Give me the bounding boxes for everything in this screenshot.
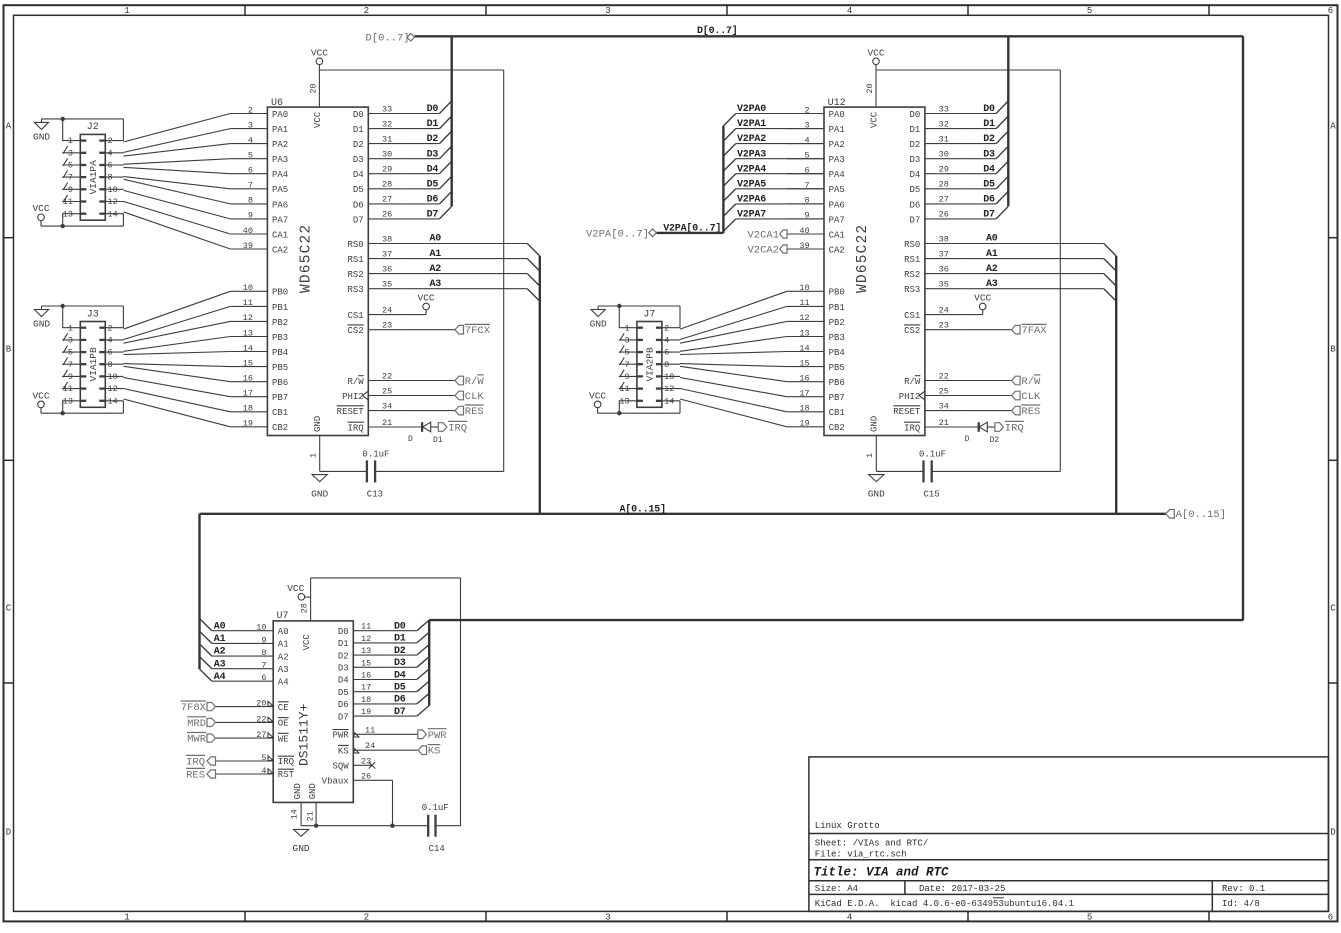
svg-text:17: 17 (799, 389, 809, 399)
svg-text:GND: GND (33, 132, 50, 143)
svg-text:CS2: CS2 (904, 326, 920, 336)
svg-text:22: 22 (256, 714, 266, 724)
svg-text:5: 5 (624, 348, 629, 358)
global label 7FAX at U12 CS2 (962, 324, 1047, 337)
svg-text:RS3: RS3 (904, 285, 920, 295)
svg-text:A0: A0 (986, 234, 998, 245)
svg-text:A1: A1 (430, 249, 442, 260)
svg-text:0.1uF: 0.1uF (362, 450, 389, 460)
svg-text:33: 33 (939, 104, 949, 114)
svg-text:14: 14 (799, 343, 809, 353)
svg-text:7F8X: 7F8X (181, 702, 207, 714)
svg-text:6: 6 (1328, 6, 1333, 16)
svg-text:RS1: RS1 (347, 255, 363, 265)
global label MWR at U7 WE (187, 733, 215, 746)
svg-text:CA1: CA1 (272, 230, 288, 240)
svg-text:6: 6 (261, 673, 266, 683)
svg-text:9: 9 (68, 185, 73, 195)
svg-text:D2: D2 (427, 134, 439, 145)
wire fan J7 to U12 port B (680, 291, 787, 427)
svg-text:31: 31 (382, 134, 392, 144)
svg-text:IRQ: IRQ (904, 423, 920, 433)
svg-text:16: 16 (799, 374, 809, 384)
svg-text:26: 26 (382, 210, 392, 220)
svg-text:9: 9 (248, 211, 253, 221)
svg-text:D1: D1 (427, 119, 439, 130)
svg-text:File: via_rtc.sch: File: via_rtc.sch (815, 850, 907, 860)
svg-text:2: 2 (108, 323, 113, 333)
wire VCC U6 to decoupling cap (319, 70, 503, 471)
global label IRQ at diode D2 (995, 421, 1024, 434)
svg-text:14: 14 (664, 396, 674, 406)
svg-text:7: 7 (261, 661, 266, 671)
svg-text:3: 3 (68, 148, 73, 158)
net labels V2PA0-V2PA7 (737, 104, 766, 220)
svg-text:D2: D2 (990, 436, 1000, 445)
svg-text:19: 19 (243, 419, 253, 429)
svg-text:8: 8 (108, 360, 113, 370)
bus A[0..15] (200, 513, 1166, 515)
svg-text:35: 35 (382, 280, 392, 290)
global label RES at U7 RST (186, 768, 215, 781)
svg-text:1: 1 (309, 453, 319, 458)
svg-text:3: 3 (605, 6, 610, 16)
svg-text:V2PA1: V2PA1 (737, 119, 766, 130)
ground GND at J7 pins 1-2 (590, 304, 680, 330)
svg-text:D0: D0 (394, 622, 406, 633)
svg-text:4: 4 (248, 135, 253, 145)
svg-text:4: 4 (108, 148, 113, 158)
svg-text:A3: A3 (986, 279, 998, 290)
svg-text:6: 6 (664, 348, 669, 358)
U6 right pin names (337, 110, 406, 434)
U12 RS0-RS3 address wires with net labels and bus entries (962, 234, 1116, 514)
svg-text:RES: RES (1021, 406, 1040, 418)
svg-text:Title: VIA and RTC: Title: VIA and RTC (814, 866, 950, 880)
svg-text:GND: GND (308, 783, 318, 799)
svg-text:D7: D7 (394, 707, 406, 718)
svg-text:PHI2: PHI2 (342, 392, 364, 402)
connector J3 VIA1PB (62, 309, 123, 407)
svg-text:23: 23 (382, 321, 392, 331)
svg-text:VCC: VCC (870, 111, 880, 128)
power VCC at U7 pin 28 (287, 578, 310, 621)
global label V2PA[0..7] (586, 229, 656, 241)
svg-text:3: 3 (605, 913, 610, 923)
svg-text:16: 16 (361, 671, 371, 681)
svg-text:28: 28 (382, 180, 392, 190)
power VCC at U6 pin 20 (311, 47, 328, 107)
svg-text:7: 7 (68, 360, 73, 370)
svg-text:RS0: RS0 (904, 240, 920, 250)
svg-text:D0: D0 (909, 110, 920, 120)
global label IRQ at diode D1 (438, 421, 467, 434)
svg-text:PA7: PA7 (272, 215, 288, 225)
svg-text:20: 20 (309, 83, 319, 93)
svg-text:39: 39 (243, 241, 253, 251)
svg-text:18: 18 (799, 404, 809, 414)
global label MRD at U7 OE (187, 717, 215, 730)
svg-text:VCC: VCC (287, 583, 304, 594)
svg-text:2: 2 (108, 136, 113, 146)
title block (809, 757, 1329, 912)
svg-text:A3: A3 (214, 659, 226, 670)
U6 left pin names and numbers (230, 105, 288, 433)
svg-text:V2PA[0..7]: V2PA[0..7] (586, 229, 649, 241)
svg-text:9: 9 (68, 372, 73, 382)
svg-text:D6: D6 (427, 195, 439, 206)
svg-text:PB2: PB2 (829, 318, 845, 328)
svg-text:12: 12 (108, 384, 118, 394)
svg-text:32: 32 (939, 119, 949, 129)
svg-text:27: 27 (939, 195, 949, 205)
svg-text:CA2: CA2 (829, 245, 845, 255)
svg-text:36: 36 (382, 264, 392, 274)
svg-text:9: 9 (261, 635, 266, 645)
svg-text:11: 11 (619, 384, 629, 394)
svg-text:VCC: VCC (418, 292, 435, 303)
svg-text:PA7: PA7 (829, 215, 845, 225)
svg-text:D4: D4 (427, 164, 439, 175)
svg-text:D4: D4 (394, 670, 406, 681)
svg-text:10: 10 (243, 283, 253, 293)
svg-text:PA4: PA4 (829, 170, 845, 180)
svg-text:29: 29 (382, 165, 392, 175)
svg-text:WE: WE (278, 734, 289, 744)
svg-text:36: 36 (939, 264, 949, 274)
ground GND at J2 pins 1-2 (33, 117, 123, 143)
svg-text:GND: GND (311, 488, 328, 499)
svg-text:0.1uF: 0.1uF (422, 803, 449, 813)
ground GND at U7 pins 14 21 (290, 802, 429, 854)
svg-text:8: 8 (261, 648, 266, 658)
svg-text:J2: J2 (87, 122, 99, 133)
svg-text:3: 3 (248, 120, 253, 130)
svg-text:D2: D2 (394, 646, 406, 657)
svg-text:0.1uF: 0.1uF (919, 450, 946, 460)
svg-text:A4: A4 (278, 677, 289, 687)
svg-text:D7: D7 (338, 712, 349, 722)
svg-text:5: 5 (261, 753, 266, 763)
svg-text:18: 18 (361, 695, 371, 705)
U12 left pin names and numbers (787, 105, 845, 433)
svg-text:27: 27 (256, 730, 266, 740)
svg-text:14: 14 (108, 209, 118, 219)
svg-text:8: 8 (108, 173, 113, 183)
svg-text:D5: D5 (338, 688, 349, 698)
svg-text:D1: D1 (394, 634, 406, 645)
svg-text:VCC: VCC (32, 203, 49, 214)
bus A entries to U7 address pins (200, 514, 237, 683)
svg-text:PA2: PA2 (829, 140, 845, 150)
svg-text:VCC: VCC (302, 634, 312, 651)
svg-text:A2: A2 (986, 264, 998, 275)
U12 right pin numbers (865, 83, 949, 458)
svg-text:GND: GND (868, 488, 885, 499)
svg-text:PB3: PB3 (829, 333, 845, 343)
svg-text:3: 3 (68, 336, 73, 346)
svg-text:R/W: R/W (904, 377, 921, 387)
svg-text:7FCX: 7FCX (465, 325, 491, 337)
svg-text:IRQ: IRQ (186, 757, 205, 769)
global label V2CA2 (747, 244, 824, 256)
svg-text:1: 1 (68, 323, 73, 333)
connector J2 VIA1PA (62, 122, 123, 220)
svg-text:VCC: VCC (867, 47, 884, 58)
svg-text:4: 4 (847, 6, 852, 16)
svg-text:PA0: PA0 (829, 110, 845, 120)
svg-text:11: 11 (63, 197, 73, 207)
global label V2CA1 (747, 229, 824, 241)
svg-text:VCC: VCC (589, 390, 606, 401)
svg-text:PA3: PA3 (272, 155, 288, 165)
svg-text:34: 34 (382, 401, 392, 411)
svg-text:27: 27 (382, 195, 392, 205)
svg-text:WD65C22: WD65C22 (299, 224, 315, 293)
svg-text:21: 21 (939, 418, 949, 428)
svg-text:PB7: PB7 (272, 393, 288, 403)
global label IRQ at U7 IRQ (186, 755, 215, 768)
svg-text:VCC: VCC (974, 292, 991, 303)
svg-text:D5: D5 (427, 179, 439, 190)
svg-text:A1: A1 (214, 634, 226, 645)
svg-text:Sheet: /VIAs and RTC/: Sheet: /VIAs and RTC/ (815, 838, 928, 848)
svg-text:A0: A0 (214, 621, 226, 632)
svg-text:1: 1 (68, 136, 73, 146)
svg-text:25: 25 (382, 386, 392, 396)
svg-text:31: 31 (939, 134, 949, 144)
svg-text:D3: D3 (394, 658, 406, 669)
wire fan J3 to U6 port B (124, 291, 231, 427)
svg-text:10: 10 (108, 372, 118, 382)
svg-text:14: 14 (243, 343, 253, 353)
svg-text:D1: D1 (983, 119, 995, 130)
svg-text:11: 11 (365, 725, 375, 735)
svg-text:17: 17 (361, 683, 371, 693)
svg-text:PB0: PB0 (272, 288, 288, 298)
svg-text:D0: D0 (353, 110, 364, 120)
svg-text:7: 7 (68, 173, 73, 183)
svg-text:16: 16 (243, 374, 253, 384)
svg-text:D1: D1 (353, 125, 364, 135)
svg-text:GND: GND (33, 319, 50, 330)
svg-text:28: 28 (299, 603, 309, 613)
svg-text:6: 6 (1328, 913, 1333, 923)
svg-text:D5: D5 (983, 179, 995, 190)
ground GND at J3 pins 1-2 (33, 304, 123, 330)
power VCC at U12 CS1 (962, 292, 992, 314)
svg-text:D2: D2 (353, 140, 364, 150)
svg-text:22: 22 (382, 371, 392, 381)
global label D[0..7] (366, 33, 415, 45)
svg-text:A3: A3 (430, 279, 442, 290)
svg-text:1: 1 (624, 323, 629, 333)
svg-text:13: 13 (619, 396, 629, 406)
svg-text:D: D (408, 435, 413, 444)
svg-text:13: 13 (361, 646, 371, 656)
svg-text:IRQ: IRQ (278, 757, 294, 767)
svg-text:VCC: VCC (311, 47, 328, 58)
svg-text:V2PA7: V2PA7 (737, 210, 766, 221)
svg-text:A3: A3 (278, 665, 289, 675)
svg-text:VIA1PA: VIA1PA (88, 160, 99, 195)
svg-text:V2PA[0..7]: V2PA[0..7] (663, 222, 721, 234)
svg-text:D1: D1 (433, 436, 443, 445)
svg-text:D7: D7 (983, 210, 995, 221)
svg-text:KiCad E.D.A. kicad 4.0.6-e0-6: KiCad E.D.A. kicad 4.0.6-e0-634953ubuntu… (815, 899, 1074, 909)
svg-text:38: 38 (939, 234, 949, 244)
svg-text:25: 25 (939, 386, 949, 396)
capacitor C15 0.1uF (919, 450, 1060, 500)
power VCC at U6 CS1 (405, 292, 435, 314)
svg-text:D3: D3 (353, 155, 364, 165)
svg-text:CA1: CA1 (829, 230, 845, 240)
svg-text:V2PA0: V2PA0 (737, 104, 766, 115)
svg-text:A2: A2 (430, 264, 442, 275)
svg-text:13: 13 (799, 328, 809, 338)
svg-text:Id: 4/8: Id: 4/8 (1222, 899, 1260, 909)
svg-text:11: 11 (63, 384, 73, 394)
svg-text:12: 12 (361, 634, 371, 644)
svg-text:OE: OE (278, 719, 289, 729)
svg-text:CB1: CB1 (272, 408, 288, 418)
svg-text:35: 35 (939, 280, 949, 290)
svg-text:22: 22 (939, 371, 949, 381)
svg-text:8: 8 (248, 196, 253, 206)
svg-text:PA0: PA0 (272, 110, 288, 120)
svg-text:D6: D6 (394, 695, 406, 706)
svg-text:15: 15 (361, 658, 371, 668)
svg-text:A0: A0 (278, 627, 289, 637)
svg-text:PA3: PA3 (829, 155, 845, 165)
ground GND at U6 pin 1 with capacitor wire (311, 436, 367, 500)
svg-text:5: 5 (1087, 6, 1092, 16)
svg-text:CS2: CS2 (347, 326, 363, 336)
svg-text:IRQ: IRQ (1005, 423, 1024, 435)
svg-text:21: 21 (382, 418, 392, 428)
svg-text:C13: C13 (367, 490, 383, 500)
svg-text:34: 34 (939, 401, 949, 411)
power VCC at U12 pin 20 (867, 47, 884, 107)
svg-text:17: 17 (243, 389, 253, 399)
U7 left pin names and numbers (216, 623, 295, 781)
svg-text:14: 14 (108, 396, 118, 406)
svg-text:D5: D5 (909, 185, 920, 195)
svg-text:PB6: PB6 (829, 378, 845, 388)
svg-text:D7: D7 (909, 215, 920, 225)
svg-text:RS1: RS1 (904, 255, 920, 265)
svg-text:19: 19 (799, 419, 809, 429)
IC U6 WD65C22 body (267, 98, 368, 435)
svg-text:V2CA1: V2CA1 (747, 229, 779, 241)
U7 D0-D7 wires with net labels and bus entries (390, 620, 1243, 718)
svg-text:5: 5 (248, 151, 253, 161)
svg-text:CLK: CLK (465, 391, 485, 403)
svg-text:12: 12 (243, 313, 253, 323)
svg-text:RS3: RS3 (347, 285, 363, 295)
wire fan J2 to U6 port A (124, 114, 231, 250)
svg-text:U7: U7 (277, 611, 289, 622)
svg-text:13: 13 (243, 328, 253, 338)
svg-text:U6: U6 (271, 98, 283, 109)
IC U12 WD65C22 body (824, 98, 925, 435)
svg-text:15: 15 (243, 358, 253, 368)
U6 D0-D7 wires with net labels and bus entries (405, 36, 451, 220)
svg-text:15: 15 (799, 358, 809, 368)
wire U7 Vbaux (353, 780, 394, 828)
svg-text:7: 7 (624, 360, 629, 370)
svg-text:1: 1 (124, 6, 129, 16)
svg-text:D: D (1330, 828, 1335, 838)
svg-text:10: 10 (108, 185, 118, 195)
global label 7F8X at U7 CE (181, 701, 216, 714)
svg-text:D2: D2 (983, 134, 995, 145)
svg-text:4: 4 (108, 336, 113, 346)
power VCC at J2 pins 13-14 (32, 203, 123, 228)
net label A[0..15] mid (620, 503, 666, 515)
svg-text:PB6: PB6 (272, 378, 288, 388)
svg-text:Rev: 0.1: Rev: 0.1 (1222, 884, 1265, 894)
svg-text:23: 23 (939, 321, 949, 331)
svg-text:KS: KS (338, 746, 349, 756)
svg-text:A1: A1 (278, 640, 289, 650)
svg-text:D7: D7 (353, 215, 364, 225)
global label A[0..15] (1166, 509, 1226, 521)
svg-text:J7: J7 (643, 309, 655, 320)
svg-text:C15: C15 (923, 490, 939, 500)
U12 right pin names (893, 110, 962, 434)
svg-text:20: 20 (865, 83, 875, 93)
svg-text:Vbaux: Vbaux (322, 777, 349, 787)
svg-text:3: 3 (624, 336, 629, 346)
wire U7 VCC loop to C14 (311, 578, 461, 826)
svg-text:Date: 2017-03-25: Date: 2017-03-25 (919, 884, 1005, 894)
svg-text:VCC: VCC (32, 390, 49, 401)
svg-text:C14: C14 (429, 844, 445, 854)
svg-text:38: 38 (382, 234, 392, 244)
svg-text:8: 8 (664, 360, 669, 370)
svg-text:GND: GND (293, 783, 303, 799)
svg-text:VCC: VCC (313, 111, 323, 128)
svg-text:CB2: CB2 (829, 423, 845, 433)
svg-text:5: 5 (1087, 913, 1092, 923)
IC U7 DS1511Y+ RTC (273, 611, 353, 802)
svg-text:V2PA3: V2PA3 (737, 149, 766, 160)
svg-text:7FAX: 7FAX (1021, 325, 1047, 337)
svg-text:V2PA4: V2PA4 (737, 164, 766, 175)
svg-text:U12: U12 (828, 98, 846, 109)
svg-text:D0: D0 (983, 104, 995, 115)
svg-text:CB2: CB2 (272, 423, 288, 433)
svg-text:2: 2 (364, 913, 369, 923)
svg-text:4: 4 (847, 913, 852, 923)
svg-text:GND: GND (590, 319, 607, 330)
diode D1 on U6 IRQ (405, 422, 443, 445)
svg-text:2: 2 (664, 323, 669, 333)
svg-text:5: 5 (68, 348, 73, 358)
svg-text:PB5: PB5 (829, 363, 845, 373)
svg-text:Linux Grotto: Linux Grotto (815, 821, 880, 831)
svg-text:37: 37 (939, 249, 949, 259)
svg-text:D3: D3 (983, 149, 995, 160)
svg-text:30: 30 (382, 150, 392, 160)
svg-text:PA2: PA2 (272, 140, 288, 150)
svg-text:CS1: CS1 (904, 311, 920, 321)
svg-text:B: B (6, 345, 12, 355)
svg-text:RS2: RS2 (904, 270, 920, 280)
svg-text:D[0..7]: D[0..7] (697, 25, 738, 37)
capacitor C13 0.1uF (362, 450, 503, 500)
